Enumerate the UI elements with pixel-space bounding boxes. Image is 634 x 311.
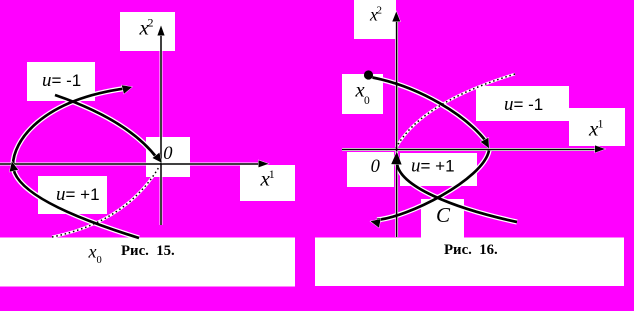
- white halos under strokes: [0, 31, 260, 238]
- switching trajectory into origin from below right: [397, 163, 517, 222]
- svg-text:Рис. 15.: Рис. 15.: [121, 243, 175, 259]
- box C right: [421, 199, 464, 240]
- box u=-1 right: [476, 86, 569, 121]
- svg-text:0: 0: [163, 144, 173, 164]
- arrowhead reaching axis: [481, 138, 489, 149]
- x axis left: [0, 163, 260, 165]
- trajectory below axis sweeping left: [377, 151, 489, 220]
- svg-text:C: C: [436, 203, 451, 227]
- box x1 label right: [569, 108, 625, 146]
- box 0 right: [347, 152, 394, 187]
- origin arrowhead left: [153, 153, 162, 163]
- arrowhead up at origin: [391, 152, 401, 165]
- y axis right: [396, 19, 398, 237]
- svg-text:1: 1: [269, 167, 275, 181]
- dotted curve right: [396, 74, 515, 148]
- svg-text:2: 2: [148, 16, 154, 30]
- y axis left arrowhead: [157, 26, 164, 36]
- box x0 right: [342, 74, 383, 114]
- svg-text:0: 0: [371, 157, 381, 177]
- dotted switching curve left: [52, 167, 159, 237]
- x axis right: [342, 149, 596, 151]
- box caption right: [315, 238, 624, 287]
- y axis right arrowhead: [392, 12, 400, 22]
- box u=+1 right: [400, 153, 477, 186]
- svg-text:0: 0: [97, 255, 102, 266]
- box u=+1 left: [38, 176, 107, 214]
- box x2 label left: [120, 12, 175, 51]
- trajectory into origin left: [55, 95, 157, 158]
- box caption left: [0, 238, 295, 287]
- svg-text:u= -1: u= -1: [42, 70, 81, 91]
- start point dot x0: [364, 70, 373, 79]
- box u=-1 left: [27, 62, 95, 101]
- svg-text:0: 0: [364, 95, 370, 107]
- y axis left: [160, 31, 162, 225]
- svg-text:u= +1: u= +1: [411, 156, 455, 177]
- svg-text:Рис. 16.: Рис. 16.: [444, 242, 498, 258]
- parabola end arrowhead (u=-1 direction): [122, 85, 132, 94]
- parabola vertex arrowhead: [10, 162, 19, 172]
- x axis left arrowhead: [259, 160, 269, 167]
- arrowhead pointing down-left: [371, 219, 381, 228]
- svg-text:2: 2: [377, 5, 383, 17]
- box 0 left: [146, 137, 190, 177]
- svg-text:u= -1: u= -1: [504, 94, 543, 115]
- box x2 label right: [354, 0, 396, 39]
- box x1 label left: [240, 165, 295, 201]
- trajectory parabola left (opens right), vertex on x-axis: [13, 88, 139, 238]
- trajectory from x0 to axis (right): [373, 78, 487, 143]
- svg-text:x: x: [88, 242, 97, 262]
- svg-text:u= +1: u= +1: [56, 184, 100, 205]
- svg-text:1: 1: [598, 117, 604, 131]
- x axis right arrowhead: [595, 145, 605, 152]
